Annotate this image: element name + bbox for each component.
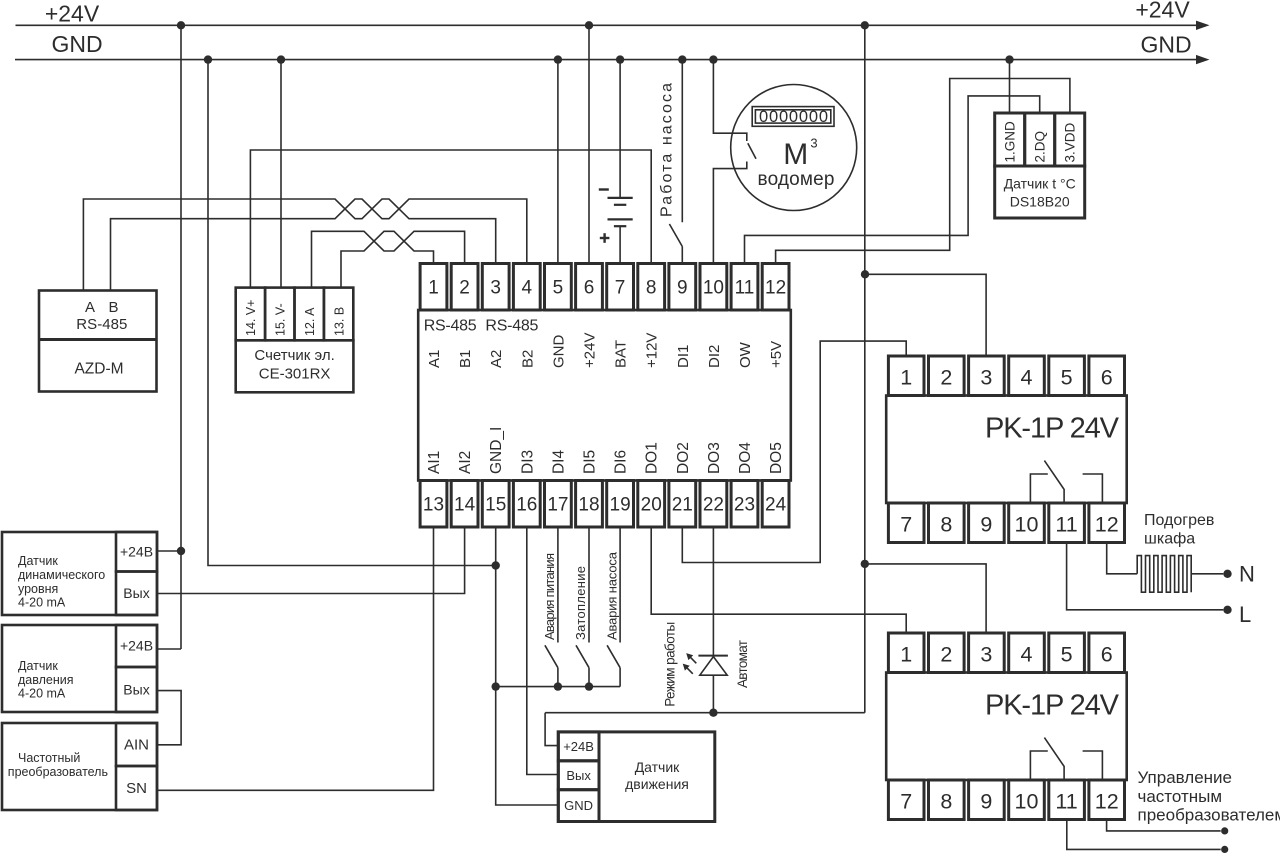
- device DS18B20 terminal cells: [995, 113, 1025, 166]
- wire RS-485 12.A (CE to B1, twisted): [312, 231, 465, 287]
- svg-text:24: 24: [765, 495, 787, 516]
- wire +24V branch down right side: [864, 25, 866, 712]
- svg-text:DI3: DI3: [519, 450, 536, 474]
- svg-text:12: 12: [765, 278, 786, 299]
- svg-text:16: 16: [516, 495, 537, 516]
- svg-text:3.VDD: 3.VDD: [1063, 122, 1078, 162]
- svg-text:Датчик: Датчик: [18, 659, 58, 673]
- svg-text:6: 6: [584, 278, 595, 299]
- wire relay1 pin11 to L: [1067, 542, 1224, 610]
- svg-text:Автомат: Автомат: [735, 640, 750, 688]
- svg-text:9: 9: [980, 513, 992, 537]
- wire +12V to CE-301RX 14.V+: [250, 150, 651, 288]
- wire DO2 to relay1 pin1: [682, 341, 906, 562]
- wire GND_I down to motion sensor GND: [496, 527, 559, 805]
- svg-text:AZD-M: AZD-M: [74, 361, 123, 378]
- svg-text:10: 10: [1015, 790, 1039, 814]
- svg-text:DI1: DI1: [675, 345, 692, 368]
- svg-text:PK-1P 24V: PK-1P 24V: [985, 690, 1120, 722]
- device frequency converter box: [2, 723, 157, 810]
- svg-text:+24V: +24V: [1135, 0, 1190, 23]
- device CE-301RX terminal cells: [236, 288, 265, 341]
- wire Авария питания upper: [557, 527, 559, 643]
- wire Авария насоса lower: [619, 668, 621, 687]
- device controller body: [418, 310, 791, 481]
- svg-text:14: 14: [454, 495, 476, 516]
- svg-text:1: 1: [900, 643, 912, 667]
- svg-text:23: 23: [734, 495, 755, 516]
- svg-text:+24V: +24V: [582, 333, 599, 368]
- LED arrow 1: [690, 657, 696, 663]
- svg-text:0000000: 0000000: [759, 108, 828, 126]
- svg-text:GND: GND: [564, 798, 593, 813]
- svg-text:Вых: Вых: [566, 768, 591, 783]
- svg-text:9: 9: [677, 278, 688, 299]
- node N terminal dot: [1223, 570, 1231, 578]
- svg-text:1: 1: [900, 366, 912, 390]
- svg-text:Управление: Управление: [1138, 768, 1233, 787]
- svg-text:8: 8: [940, 790, 952, 814]
- svg-text:DI4: DI4: [550, 450, 567, 475]
- wire battery top: [619, 60, 621, 198]
- wire Авария насоса upper: [619, 527, 621, 643]
- svg-text:+12V: +12V: [644, 333, 661, 368]
- svg-text:2: 2: [940, 643, 952, 667]
- svg-text:L: L: [1239, 602, 1251, 627]
- device pressure sensor box: [2, 625, 157, 712]
- svg-text:A2: A2: [488, 350, 505, 368]
- svg-text:5: 5: [553, 278, 564, 299]
- node relay2 pin11 output dot: [1221, 846, 1228, 853]
- LED arrow 2: [687, 668, 693, 674]
- svg-text:AI1: AI1: [426, 451, 443, 474]
- device water meter register box: [752, 107, 834, 127]
- svg-text:17: 17: [547, 495, 568, 516]
- svg-text:4: 4: [522, 278, 533, 299]
- svg-text:Частотный: Частотный: [18, 751, 80, 765]
- device relay K1 bottom terminal row: [888, 503, 924, 543]
- wire +24V to relay1 pin3: [865, 274, 986, 355]
- svg-text:водомер: водомер: [758, 169, 835, 190]
- svg-text:DI5: DI5: [582, 450, 599, 474]
- svg-text:2.DQ: 2.DQ: [1033, 131, 1048, 163]
- svg-text:B2: B2: [519, 350, 536, 368]
- svg-text:7: 7: [615, 278, 626, 299]
- device AZD-M divider: [39, 338, 157, 341]
- svg-text:PK-1P 24V: PK-1P 24V: [985, 413, 1120, 445]
- svg-text:3: 3: [980, 643, 992, 667]
- svg-text:DO2: DO2: [675, 442, 692, 474]
- device level sensor box: [2, 532, 157, 615]
- svg-text:5: 5: [1061, 366, 1073, 390]
- device relay K1 top terminal row: [888, 356, 924, 396]
- wire GND drop to 15.V-: [280, 60, 282, 288]
- svg-text:Затопление: Затопление: [573, 566, 588, 640]
- relay K1 contact: [1030, 474, 1102, 503]
- svg-text:Авария питания: Авария питания: [542, 553, 557, 640]
- node battery minus label: [599, 188, 609, 190]
- wire relay2 pin12 output: [1107, 821, 1221, 831]
- wire DO3 to LED: [712, 527, 714, 656]
- svg-text:10: 10: [703, 278, 724, 299]
- svg-text:Вых: Вых: [123, 585, 149, 601]
- svg-text:3: 3: [490, 278, 501, 299]
- svg-text:3: 3: [810, 136, 817, 151]
- switch Затопление blade: [576, 645, 589, 667]
- svg-text:13: 13: [423, 495, 444, 516]
- wire Затопление upper: [588, 527, 590, 643]
- svg-text:8: 8: [646, 278, 657, 299]
- svg-text:2: 2: [940, 366, 952, 390]
- svg-text:Авария насоса: Авария насоса: [604, 551, 619, 640]
- wire RS-485 13.B (CE to A1, twisted): [341, 231, 434, 287]
- svg-text:шкафа: шкафа: [1144, 531, 1195, 548]
- wire water meter upper: [713, 60, 746, 141]
- device AZD-M box: [39, 291, 157, 392]
- wire DI3 to motion sensor out: [527, 527, 559, 775]
- svg-text:7: 7: [900, 790, 912, 814]
- svg-text:RS-485: RS-485: [424, 318, 477, 335]
- svg-text:11: 11: [1055, 513, 1077, 537]
- svg-text:5: 5: [1061, 643, 1073, 667]
- svg-text:3: 3: [980, 366, 992, 390]
- svg-text:Датчик: Датчик: [18, 554, 58, 568]
- device relay K2 bottom terminal row: [888, 780, 924, 820]
- svg-text:11: 11: [735, 278, 755, 299]
- svg-text:15. V-: 15. V-: [274, 303, 288, 336]
- svg-text:9: 9: [980, 790, 992, 814]
- svg-text:13. B: 13. B: [332, 307, 346, 336]
- wire pressure sensor out to AIN: [157, 691, 181, 745]
- svg-text:+24V: +24V: [45, 1, 100, 27]
- svg-text:DO1: DO1: [644, 442, 661, 474]
- wire +24V to pin6: [588, 25, 590, 263]
- battery BAT plates: [608, 197, 633, 199]
- svg-text:1: 1: [428, 278, 439, 299]
- wire GND to DS18B20 1.GND: [1009, 60, 1011, 113]
- svg-text:+24В: +24В: [563, 739, 594, 754]
- svg-text:A1: A1: [426, 350, 443, 368]
- svg-text:N: N: [1239, 562, 1255, 587]
- wire RS-485 B (AZD-M to B2, twisted): [111, 199, 527, 291]
- svg-text:преобразователь: преобразователь: [8, 765, 108, 779]
- svg-text:CE-301RX: CE-301RX: [259, 366, 331, 383]
- svg-text:частотным: частотным: [1138, 787, 1223, 806]
- svg-text:12: 12: [1095, 513, 1119, 537]
- LED triangle: [700, 657, 727, 676]
- wire water meter lower: [713, 162, 746, 264]
- svg-text:Работа насоса: Работа насоса: [659, 83, 676, 217]
- switch water meter reed blade: [748, 143, 756, 159]
- svg-text:2: 2: [459, 278, 470, 299]
- relay K2 contact: [1030, 751, 1102, 780]
- svg-text:BAT: BAT: [613, 340, 630, 368]
- svg-text:+24В: +24В: [120, 638, 153, 654]
- svg-text:GND: GND: [51, 31, 102, 57]
- svg-text:SN: SN: [126, 780, 147, 797]
- svg-text:6: 6: [1101, 643, 1113, 667]
- svg-text:DI2: DI2: [706, 345, 723, 368]
- svg-text:движения: движения: [625, 776, 689, 792]
- svg-text:18: 18: [578, 495, 599, 516]
- device water meter circle: [731, 85, 857, 211]
- wire +24V to relay2 pin3: [865, 564, 986, 633]
- svg-text:GND: GND: [1140, 32, 1191, 58]
- wire +24V drop to sensors: [157, 25, 181, 649]
- svg-text:+24В: +24В: [120, 544, 153, 560]
- svg-text:B: B: [108, 299, 118, 316]
- svg-text:4: 4: [1021, 366, 1033, 390]
- device controller bottom terminal row: [420, 481, 447, 528]
- svg-text:14. V+: 14. V+: [244, 300, 258, 337]
- wire pump-run lower: [681, 247, 683, 264]
- svg-text:15: 15: [485, 495, 506, 516]
- svg-text:RS-485: RS-485: [485, 318, 538, 335]
- svg-text:+5V: +5V: [768, 341, 785, 368]
- svg-text:21: 21: [672, 495, 693, 516]
- wire DO1 to relay2 pin1: [651, 527, 906, 633]
- wire LED to +24V line: [712, 675, 714, 713]
- wire OW to DS18B20 2.DQ: [745, 96, 1040, 264]
- node junction dots: [177, 21, 185, 29]
- svg-text:преобразователем: преобразователем: [1138, 806, 1280, 825]
- wire alarm common line: [496, 686, 620, 688]
- wire battery bottom to pin7: [619, 226, 621, 263]
- svg-text:Счетчик эл.: Счетчик эл.: [254, 347, 334, 364]
- device CE-301RX body: [236, 340, 354, 392]
- svg-text:OW: OW: [737, 341, 754, 368]
- svg-text:6: 6: [1101, 366, 1113, 390]
- wire AI1 to frequency converter SN: [157, 527, 434, 790]
- svg-text:AIN: AIN: [124, 737, 149, 754]
- wire Затопление lower: [588, 668, 590, 687]
- svg-text:22: 22: [703, 495, 724, 516]
- svg-text:Датчик: Датчик: [635, 759, 680, 775]
- svg-text:4-20 mA: 4-20 mA: [18, 687, 66, 701]
- svg-text:Подогрев: Подогрев: [1144, 512, 1214, 529]
- svg-text:B1: B1: [457, 350, 474, 368]
- heater element comb: [1137, 556, 1191, 593]
- wire motion sensor +24V feed: [545, 713, 558, 746]
- wire GND rail: [15, 59, 1197, 61]
- svg-text:давления: давления: [18, 673, 74, 687]
- svg-text:М: М: [783, 138, 808, 171]
- switch pump-run blade: [669, 224, 682, 247]
- node +24V rail arrowhead: [1196, 21, 1210, 30]
- svg-text:динамического: динамического: [18, 568, 105, 582]
- wire Авария питания lower: [557, 668, 559, 687]
- svg-text:DI6: DI6: [613, 450, 630, 474]
- svg-text:1.GND: 1.GND: [1003, 121, 1018, 163]
- node relay2 pin12 output dot: [1221, 827, 1228, 834]
- svg-text:10: 10: [1015, 513, 1039, 537]
- device relay K1 body: [886, 396, 1126, 504]
- wire +24V LED distribution line: [545, 712, 865, 714]
- svg-text:AI2: AI2: [457, 451, 474, 474]
- wire GND drop to GND_I: [208, 60, 496, 566]
- svg-text:уровня: уровня: [18, 582, 58, 596]
- device DS18B20 body: [995, 166, 1085, 218]
- wire +24V rail: [16, 24, 1198, 26]
- device motion sensor box: [558, 732, 715, 822]
- svg-text:7: 7: [900, 513, 912, 537]
- wire relay1 pin12 to heater: [1107, 542, 1138, 574]
- LED cathode bar: [698, 655, 728, 657]
- device controller top terminal row: [420, 264, 447, 311]
- node battery plus label: [600, 237, 610, 239]
- svg-text:Датчик t °C: Датчик t °C: [1004, 176, 1076, 192]
- svg-text:4: 4: [1021, 643, 1033, 667]
- svg-text:A: A: [85, 299, 95, 316]
- svg-text:Вых: Вых: [123, 682, 149, 698]
- wire RS-485 A (AZD-M to A2, twisted): [83, 199, 495, 291]
- svg-text:GND: GND: [550, 335, 567, 369]
- svg-text:DO4: DO4: [737, 442, 754, 474]
- svg-text:DS18B20: DS18B20: [1010, 194, 1070, 210]
- svg-text:DO3: DO3: [706, 442, 723, 474]
- svg-text:Режим работы: Режим работы: [662, 622, 677, 707]
- device relay K2 body: [886, 673, 1126, 781]
- wire heater to N: [1191, 573, 1223, 575]
- wire pump-run upper: [681, 60, 683, 223]
- wire AI2 to level sensor out: [157, 527, 465, 594]
- wire relay2 pin11 output: [1067, 821, 1221, 850]
- svg-text:11: 11: [1055, 790, 1077, 814]
- svg-text:8: 8: [940, 513, 952, 537]
- device motion sensor cells: [558, 732, 599, 761]
- svg-text:GND_I: GND_I: [488, 427, 505, 474]
- node L terminal dot: [1223, 606, 1231, 614]
- svg-text:19: 19: [610, 495, 631, 516]
- node GND rail arrowhead: [1196, 55, 1210, 64]
- svg-text:20: 20: [641, 495, 662, 516]
- wire +5V to DS18B20 3.VDD: [776, 79, 1070, 264]
- svg-text:12. A: 12. A: [303, 307, 317, 336]
- switch Авария насоса blade: [607, 645, 620, 667]
- svg-text:4-20 mA: 4-20 mA: [18, 596, 66, 610]
- device relay K2 top terminal row: [888, 633, 924, 673]
- svg-text:DO5: DO5: [768, 442, 785, 474]
- switch Авария питания blade: [545, 645, 558, 667]
- svg-text:RS-485: RS-485: [76, 316, 127, 333]
- svg-text:12: 12: [1095, 790, 1119, 814]
- wire GND to pin5: [557, 60, 559, 264]
